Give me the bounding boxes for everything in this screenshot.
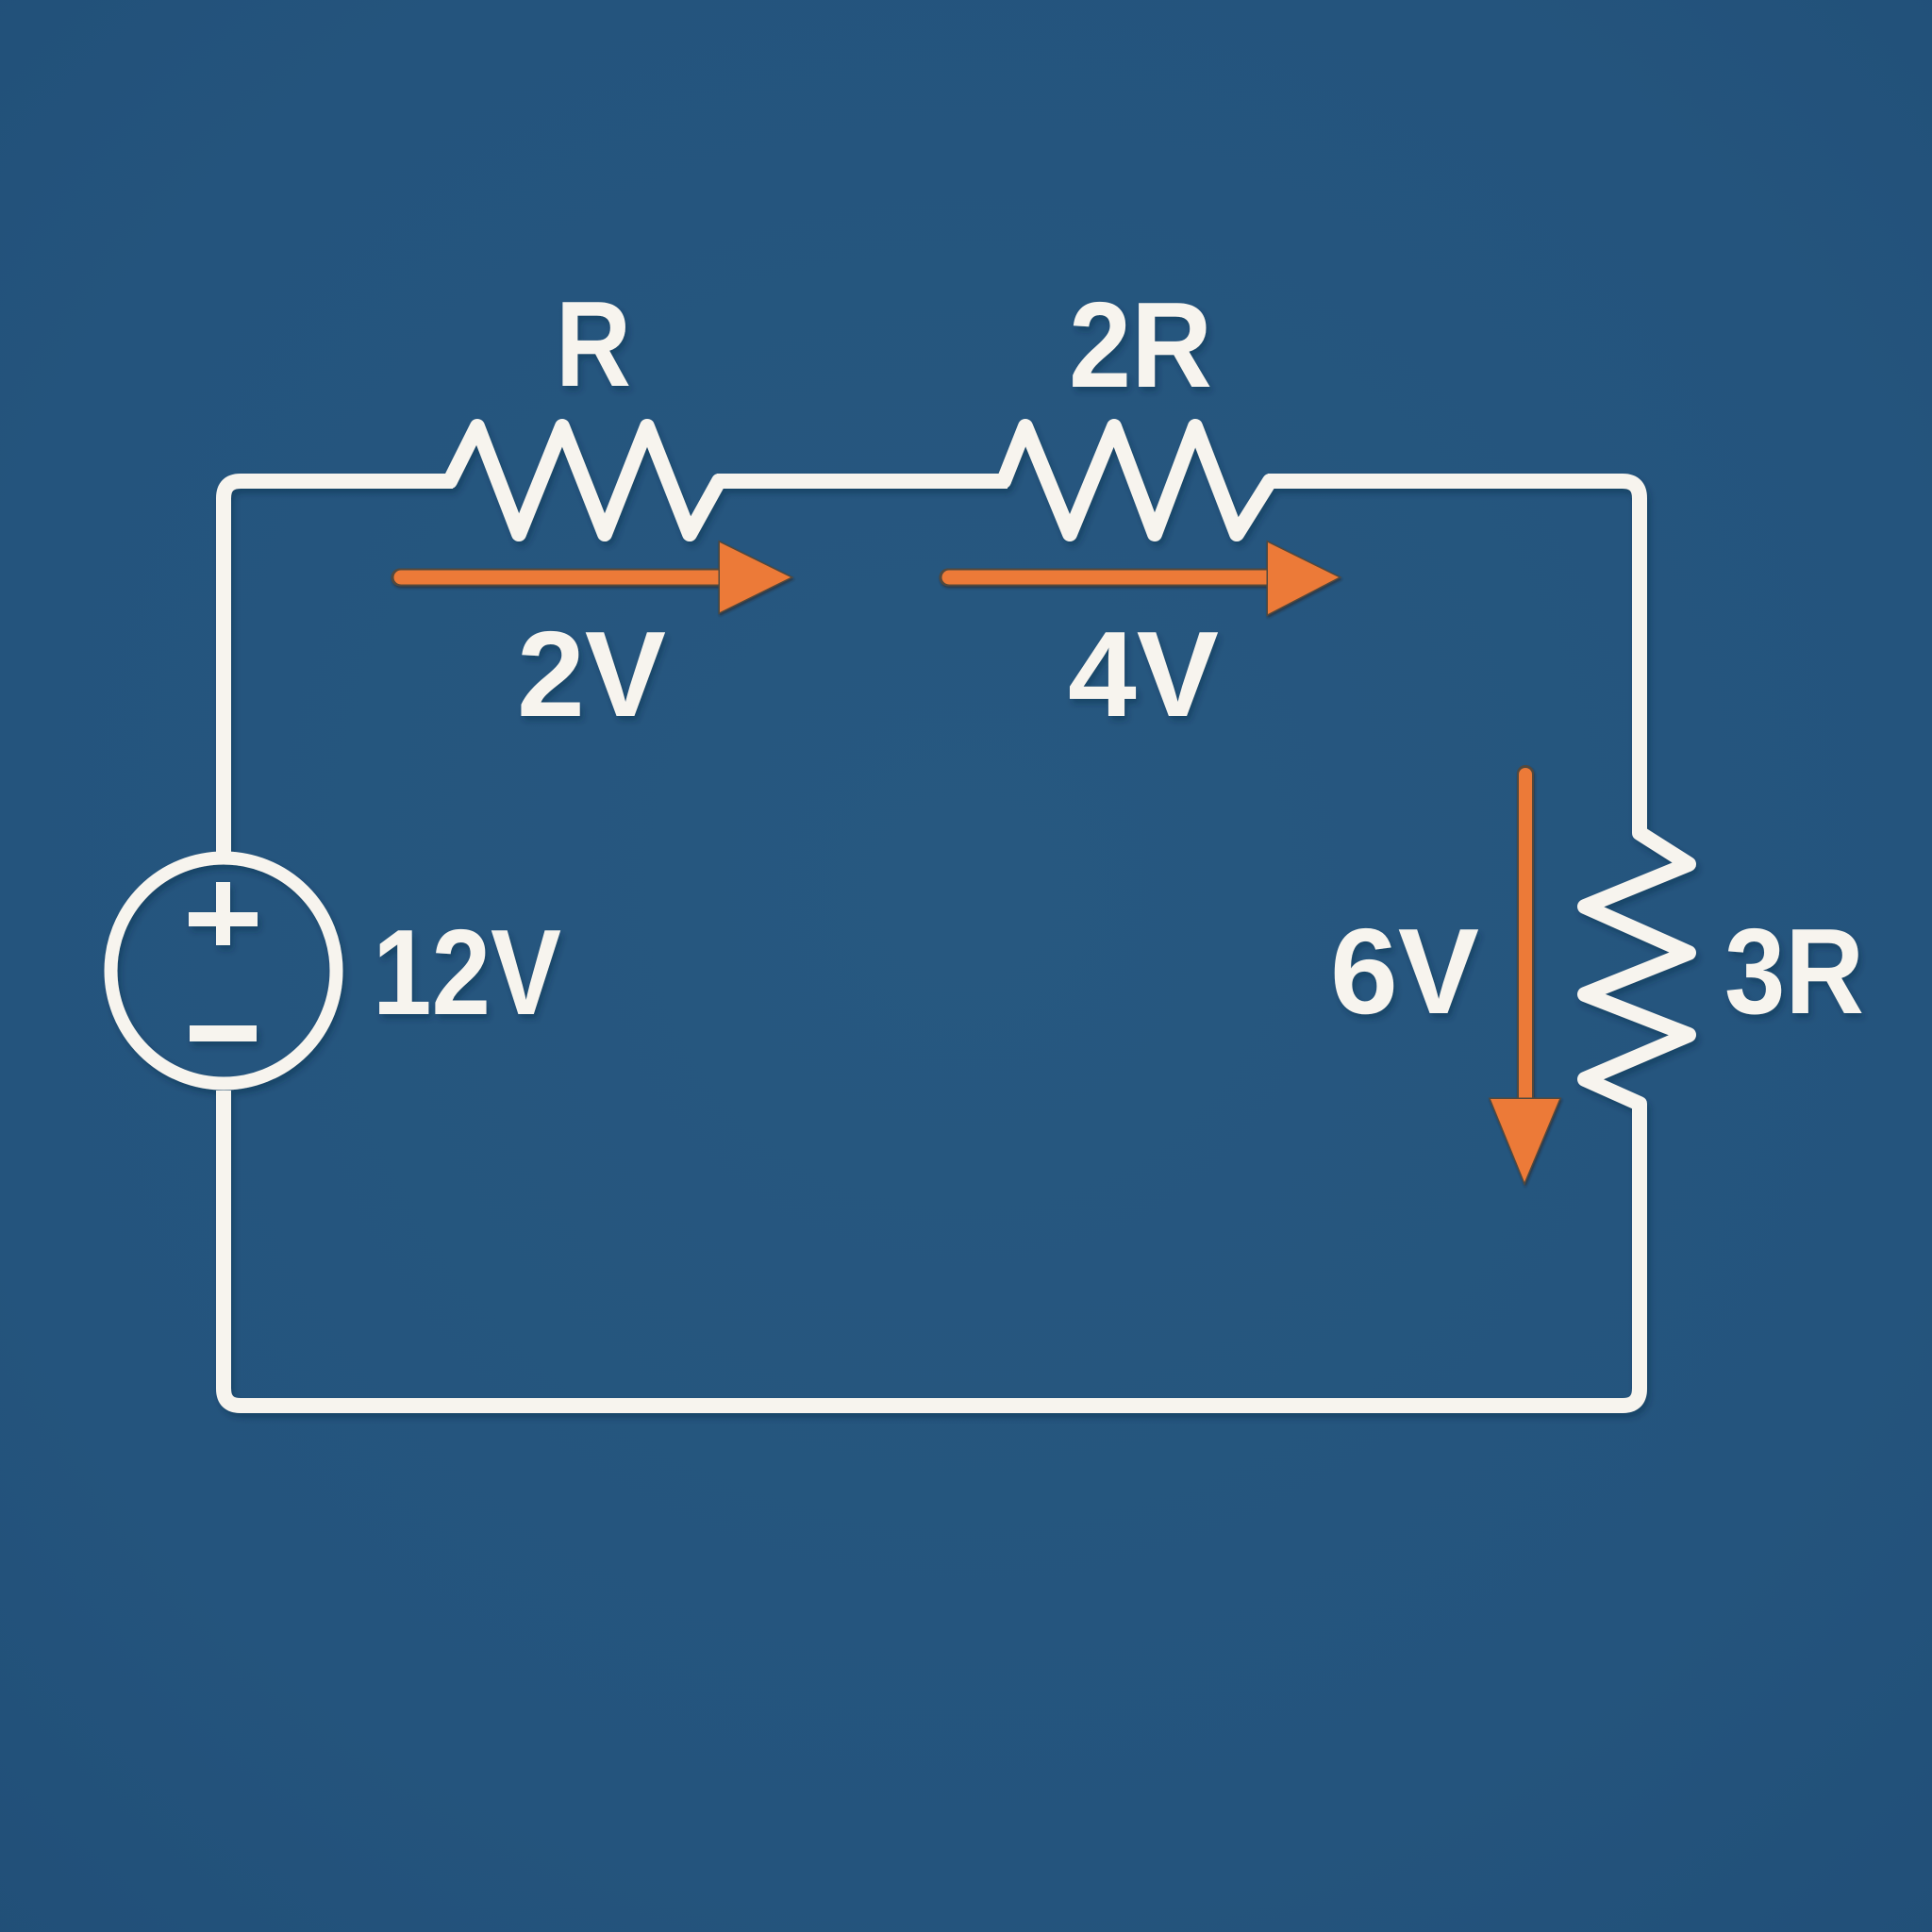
wire: top-right corner segment down to resistor 3R	[1268, 481, 1640, 826]
svg-text:4V: 4V	[1068, 607, 1219, 742]
current arrow under 2R	[948, 569, 1274, 587]
svg-text:2V: 2V	[517, 607, 666, 742]
svg-text:R: R	[556, 276, 631, 412]
wire: top middle segment between R and 2R	[717, 474, 1008, 489]
resistor 3R	[1585, 817, 1689, 1121]
voltage source V1 circle	[111, 858, 337, 1084]
svg-text:12V: 12V	[373, 905, 561, 1041]
resistor R	[445, 426, 724, 534]
resistor 2R	[999, 426, 1275, 534]
minus terminal mark	[190, 1025, 257, 1041]
current arrow under R	[400, 569, 726, 587]
wire: right branch below 3R, bottom return wire and left rise to voltage source	[224, 1091, 1640, 1406]
svg-text:6V: 6V	[1330, 904, 1479, 1040]
plus terminal mark	[189, 882, 258, 945]
wire: left branch, from voltage source up through top-left corner to resistor R	[224, 481, 453, 852]
svg-text:2R: 2R	[1069, 277, 1212, 413]
current arrow beside 3R (down)	[1517, 774, 1534, 1104]
svg-text:3R: 3R	[1724, 904, 1864, 1040]
